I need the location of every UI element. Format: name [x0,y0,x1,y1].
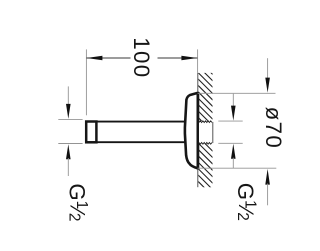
pipe body top line [86,121,185,123]
arrow shaft dia70 bottom [267,184,269,206]
wall left edge above flange [197,73,199,92]
svg-text:G1⁄2: G1⁄2 [233,183,259,221]
arrow shaft right G1/2 bottom [232,158,234,168]
svg-text:100: 100 [129,37,154,78]
extension line connector bottom (right G1/2) [218,142,242,144]
extension line at wall face (100 dim, right) [197,49,199,73]
arrowhead right G1/2 bottom (up) [231,144,236,159]
extension line pipe bottom (left G1/2) [58,143,82,145]
arrow shaft dia70 top [267,58,269,79]
svg-text:ø70: ø70 [261,107,286,150]
svg-text:G1⁄2: G1⁄2 [65,183,91,221]
connector thread zigzag bottom [199,143,212,145]
extension line flange top (dia 70) [198,92,276,94]
arrow shaft left G1/2 top [67,86,69,105]
wall hatching upper section [193,55,218,144]
pipe end cap [86,122,96,143]
extension line pipe top (left G1/2) [58,119,82,121]
arrowhead left G1/2 top (down) [66,104,71,119]
arrowhead dia70 top (down) [265,78,270,93]
wall left edge below flange [197,169,199,187]
pipe body bottom line [86,141,185,143]
arrow shaft right G1/2 top [232,94,234,107]
flange face at wall [196,92,199,169]
threaded connector body (white gap in wall) [199,123,213,143]
dimension line 100 (left segment) [86,57,130,59]
arrowhead 100 right [181,56,197,61]
arrowhead 100 left [86,56,102,61]
arrowhead left G1/2 bottom (up) [66,144,71,159]
flange (escutcheon) outline [185,93,198,168]
connector right edge [212,122,214,143]
wall hatching lower section [193,132,218,202]
arrowhead right G1/2 top (down) [231,106,236,121]
dimension line 100 (right segment) [158,57,198,59]
connector thread zigzag top [199,121,212,123]
extension line connector top (right G1/2) [218,120,242,122]
extension line at pipe end (100 dim, left) [85,49,87,115]
arrow shaft left G1/2 bottom [67,158,69,176]
arrowhead dia70 bottom (up) [265,169,270,185]
extension line flange bottom (dia 70) [198,167,277,169]
